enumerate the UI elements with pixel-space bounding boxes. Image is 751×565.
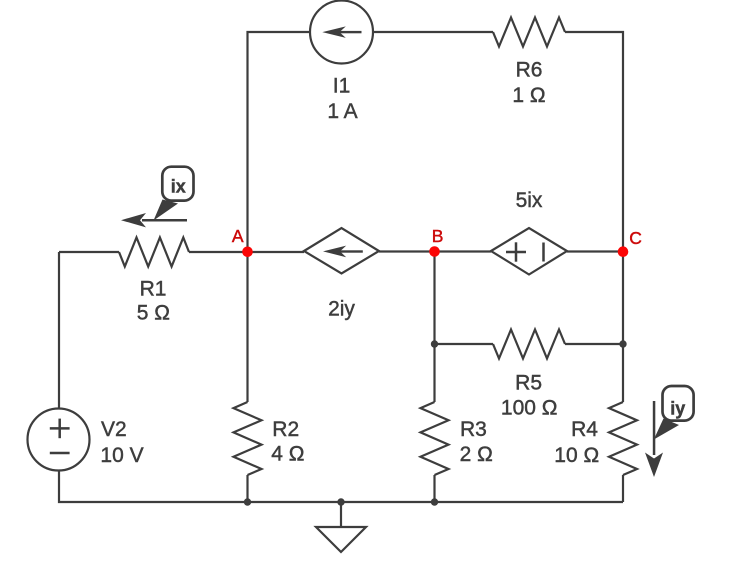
svg-text:100 Ω: 100 Ω xyxy=(501,397,558,420)
resistor R2 xyxy=(234,402,262,475)
plus sign of V2 xyxy=(50,419,70,453)
wire left rail down to V2 xyxy=(58,252,60,409)
current probe ix box xyxy=(162,167,193,201)
dependent voltage source 5ix diamond xyxy=(491,228,567,275)
ground xyxy=(316,527,366,552)
wire R3 bottom xyxy=(433,475,435,502)
wire R4 bottom xyxy=(622,475,624,502)
svg-text:V2: V2 xyxy=(101,418,127,441)
junction dot B-R5 xyxy=(431,340,438,347)
node A red dot xyxy=(242,247,253,258)
svg-text:10 V: 10 V xyxy=(100,444,143,467)
svg-text:2 Ω: 2 Ω xyxy=(460,443,493,466)
svg-text:B: B xyxy=(432,226,444,246)
wire top-right from R6 down to node C xyxy=(565,32,623,252)
ground stub xyxy=(340,502,342,527)
arrow of 2iy xyxy=(323,246,363,258)
svg-text:A: A xyxy=(232,226,244,246)
wire 5ix to node C xyxy=(567,250,623,252)
resistor R5 xyxy=(493,330,565,359)
svg-text:ix: ix xyxy=(171,177,186,197)
svg-text:iy: iy xyxy=(670,399,685,419)
resistor R6 xyxy=(493,18,565,47)
svg-text:2iy: 2iy xyxy=(328,298,355,321)
node B red dot xyxy=(429,246,440,257)
svg-text:5 Ω: 5 Ω xyxy=(137,302,170,325)
wire mid-left rail to R1 xyxy=(59,251,119,253)
current source I1 xyxy=(310,1,373,64)
current probe iy arrowhead xyxy=(645,453,663,478)
wire B column to R5 xyxy=(435,343,494,345)
node C red dot xyxy=(618,246,629,257)
svg-text:1 Ω: 1 Ω xyxy=(512,84,545,107)
arrow of current source I1 xyxy=(322,26,361,38)
voltage source V2 xyxy=(28,409,90,471)
junction dot A-R2-bottom xyxy=(244,498,251,505)
svg-text:R1: R1 xyxy=(140,278,167,301)
wire from I1 to R6 xyxy=(373,31,493,33)
wire top-left from node A up and right to I1 xyxy=(248,32,311,252)
resistor R3 xyxy=(421,402,449,475)
wire V2 bottom to bottom rail xyxy=(59,471,623,503)
wire R1 to 2iy diamond xyxy=(189,251,304,253)
junction dot C-R5 xyxy=(619,340,626,347)
svg-text:1 A: 1 A xyxy=(327,100,357,123)
current probe ix pointer xyxy=(154,200,179,221)
wire node C down to R4 xyxy=(622,252,624,403)
wire R5 to C column xyxy=(565,343,623,345)
svg-text:10 Ω: 10 Ω xyxy=(554,444,599,467)
current probe ix arrow line xyxy=(142,219,187,222)
minus sign of V2 xyxy=(50,452,70,455)
dependent current source 2iy diamond xyxy=(304,228,379,274)
resistor R1 xyxy=(119,238,189,267)
svg-text:4 Ω: 4 Ω xyxy=(271,443,304,466)
svg-text:R5: R5 xyxy=(515,372,542,395)
current probe iy arrow line xyxy=(653,401,656,455)
current probe ix arrowhead xyxy=(121,213,146,227)
svg-text:R4: R4 xyxy=(571,418,598,441)
svg-text:I1: I1 xyxy=(333,75,351,98)
wire R2 bottom xyxy=(246,475,248,502)
plus sign of 5ix xyxy=(506,242,544,261)
current probe iy box xyxy=(663,386,694,421)
junction dot B-R3-bottom xyxy=(431,498,438,505)
wire 2iy to 5ix xyxy=(379,250,491,252)
svg-text:R3: R3 xyxy=(460,418,487,441)
junction dot ground xyxy=(337,498,344,505)
svg-text:5ix: 5ix xyxy=(516,189,543,212)
wire node B down to R3 xyxy=(433,252,435,403)
svg-text:R2: R2 xyxy=(272,418,299,441)
current probe iy pointer xyxy=(654,419,679,440)
wire node A down to R2 xyxy=(246,252,248,402)
resistor R4 xyxy=(609,402,637,475)
svg-text:R6: R6 xyxy=(516,59,543,82)
svg-text:C: C xyxy=(629,228,642,248)
minus bar of 5ix xyxy=(542,243,545,262)
